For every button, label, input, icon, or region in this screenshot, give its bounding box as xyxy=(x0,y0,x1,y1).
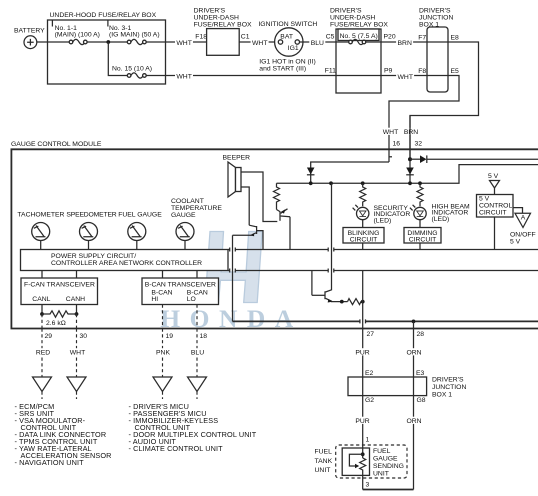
svg-text:WHT: WHT xyxy=(176,73,191,80)
TOPLEFT xyxy=(14,12,336,84)
svg-text:SENDING: SENDING xyxy=(373,463,404,470)
arrow stub 18 xyxy=(196,392,198,400)
svg-text:3: 3 xyxy=(366,482,370,489)
svg-text:F8: F8 xyxy=(418,68,426,75)
svg-text:FUEL: FUEL xyxy=(315,449,333,456)
wire pin1 into sender xyxy=(362,445,364,458)
node CANL xyxy=(40,312,44,316)
svg-text:19: 19 xyxy=(166,333,174,340)
resistor R2 xyxy=(274,183,280,209)
node busA security column xyxy=(361,181,365,185)
node pin27 column xyxy=(361,300,365,304)
svg-text:No. 15 (10 A): No. 15 (10 A) xyxy=(112,66,152,73)
node on lower rail xyxy=(412,320,416,324)
connector arrow 30 xyxy=(67,377,86,392)
svg-text:F7: F7 xyxy=(418,35,426,42)
wire B-CAN HI to pin 19 xyxy=(162,305,164,329)
svg-text:BLU: BLU xyxy=(191,350,204,357)
transistor Q2 xyxy=(233,225,264,249)
svg-text:BOX 1: BOX 1 xyxy=(432,392,452,399)
svg-text:(IG MAIN) (50 A): (IG MAIN) (50 A) xyxy=(109,31,160,38)
wire G8 ORN down xyxy=(413,396,415,490)
under-dash fuse/relay box 2 xyxy=(336,29,381,93)
wire lower WHT run to F11 xyxy=(146,75,336,77)
wire E8 BRN run to pin 32 xyxy=(410,42,479,158)
driver's junction box 1 xyxy=(427,27,448,92)
wire dimming circuit to bus1 xyxy=(419,243,421,250)
svg-text:PUR: PUR xyxy=(355,350,369,357)
node busA diode32 xyxy=(408,181,412,185)
speedometer gauge xyxy=(80,223,98,241)
wire Q2 emitter down to lower rail xyxy=(232,235,234,321)
note IG1 HOT xyxy=(259,59,316,73)
wire E2-G2 inside box xyxy=(362,377,364,396)
svg-text:LO: LO xyxy=(187,296,196,303)
svg-text:DRIVER'S: DRIVER'S xyxy=(194,8,226,15)
dimming circuit box xyxy=(404,228,441,244)
svg-text:18: 18 xyxy=(200,333,208,340)
node junction xyxy=(106,40,110,44)
svg-text:2.6 kΩ: 2.6 kΩ xyxy=(46,320,66,327)
wire Q3 base from bus2 xyxy=(311,271,313,296)
diode D3 on wire 32 xyxy=(406,168,414,175)
node busA high-beam column xyxy=(418,181,422,185)
wire label WHT xyxy=(175,39,193,46)
svg-text:30: 30 xyxy=(80,333,88,340)
gauge control module box border xyxy=(11,149,538,328)
b-can transceiver box xyxy=(142,278,219,305)
wire B-CAN LO to pin 18 xyxy=(196,305,198,329)
fuse No.3-1 symbol xyxy=(127,39,146,44)
svg-text:DRIVER'S: DRIVER'S xyxy=(432,377,464,384)
Honda H emblem watermark xyxy=(160,232,302,334)
wire control box to amplifier A xyxy=(513,208,523,214)
svg-text:WHT: WHT xyxy=(176,40,191,47)
wire 32 entry xyxy=(409,116,411,184)
svg-text:GAUGE CONTROL MODULE: GAUGE CONTROL MODULE xyxy=(11,141,102,148)
svg-text:29: 29 xyxy=(45,333,53,340)
svg-text:CONTROLLER AREA NETWORK CONTRO: CONTROLLER AREA NETWORK CONTROLLER xyxy=(51,260,202,267)
fuel gauge sending unit body xyxy=(342,448,369,475)
coolant temperature gauge xyxy=(176,223,194,241)
wire label RED xyxy=(35,348,52,355)
wire fuel gauge to power box xyxy=(136,241,138,250)
wire label ORN xyxy=(406,348,423,355)
svg-text:27: 27 xyxy=(367,331,375,338)
wire control box to bus1 xyxy=(494,217,496,250)
ignition switch SW1 xyxy=(258,21,317,56)
svg-text:5 V: 5 V xyxy=(510,238,521,245)
arrow stub 30 xyxy=(76,392,78,400)
wire label WHT xyxy=(175,72,193,79)
driver's junction box 1 lower xyxy=(348,377,427,396)
wire P20 to F7 xyxy=(381,41,427,43)
svg-text:G2: G2 xyxy=(365,397,374,404)
power rail busA xyxy=(277,165,538,184)
wire 30 WHT xyxy=(76,329,78,378)
svg-text:CIRCUIT: CIRCUIT xyxy=(479,210,507,217)
under-dash fuse/relay box (F18-C1) xyxy=(207,29,240,56)
svg-text:WHT: WHT xyxy=(70,350,85,357)
driver's junction box 1 label xyxy=(419,8,453,29)
svg-text:CIRCUIT: CIRCUIT xyxy=(350,237,378,244)
fuse No.15 symbol xyxy=(127,73,146,78)
svg-text:DRIVER'S: DRIVER'S xyxy=(419,8,451,15)
wire B-CAN LO power to b-can xyxy=(196,271,198,279)
svg-text:BLU: BLU xyxy=(311,40,324,47)
resistor R1 2.6 kOhm xyxy=(42,311,77,327)
node busA diode16 xyxy=(309,181,313,185)
svg-text:BRN: BRN xyxy=(404,129,418,136)
driver's under-dash fuse/relay box label xyxy=(194,8,252,29)
svg-text:C5: C5 xyxy=(326,34,335,41)
svg-text:- CLIMATE CONTROL UNIT: - CLIMATE CONTROL UNIT xyxy=(129,444,224,453)
transistor Q1 xyxy=(277,209,291,250)
svg-text:UNDER-DASH: UNDER-DASH xyxy=(194,15,239,22)
wire label ORN xyxy=(406,417,423,424)
wire tachometer to power box xyxy=(40,241,42,250)
svg-text:COOLANT: COOLANT xyxy=(171,198,204,205)
coolant temperature gauge label xyxy=(171,198,222,219)
svg-text:CIRCUIT: CIRCUIT xyxy=(409,237,437,244)
wire label PUR xyxy=(354,417,371,424)
svg-text:ON/OFF: ON/OFF xyxy=(510,231,536,238)
fuel tank unit label xyxy=(315,449,333,475)
wire battery to under-hood box xyxy=(37,41,48,43)
svg-text:F18: F18 xyxy=(195,34,207,41)
svg-text:BRN: BRN xyxy=(398,40,412,47)
on/off label xyxy=(510,231,536,245)
svg-text:ORN: ORN xyxy=(406,418,421,425)
connector arrow 29 xyxy=(33,377,52,392)
GAUGES xyxy=(17,198,538,329)
pin tick wire 16 xyxy=(389,156,392,158)
high beam indicator LED2 xyxy=(410,205,426,220)
svg-text:F-CAN TRANSCEIVER: F-CAN TRANSCEIVER xyxy=(24,282,95,289)
fuse No. 5 label box xyxy=(338,29,379,41)
wire CANL to pin 29 xyxy=(41,314,43,329)
svg-text:(MAIN) (100 A): (MAIN) (100 A) xyxy=(55,31,100,38)
TOPMID xyxy=(194,8,336,73)
wire label PNK xyxy=(155,348,172,355)
sender variable resistor xyxy=(360,458,366,490)
wire label PUR xyxy=(354,348,371,355)
bus1 rail xyxy=(228,249,538,251)
wire label BLU xyxy=(309,39,325,46)
wire F8-E5 inside box xyxy=(427,75,448,77)
wire label WHT xyxy=(396,73,414,80)
destination list left xyxy=(15,402,112,467)
svg-text:CONTROL: CONTROL xyxy=(479,203,512,210)
svg-text:JUNCTION: JUNCTION xyxy=(419,15,453,22)
svg-text:No. 5 (7.5 A): No. 5 (7.5 A) xyxy=(340,33,378,40)
lower rail wire to pin 28 xyxy=(233,320,538,322)
driver's junction box 1 lower label xyxy=(432,377,466,399)
wire F7-E8 inside box xyxy=(427,41,448,43)
fuel gauge sending unit label xyxy=(373,448,404,478)
beeper speaker symbol xyxy=(228,162,241,197)
svg-text:32: 32 xyxy=(415,141,423,148)
node sender tap xyxy=(361,452,365,456)
wire beeper top to transistor Q1 base xyxy=(241,172,277,222)
svg-text:B-CAN TRANSCEIVER: B-CAN TRANSCEIVER xyxy=(145,282,216,289)
svg-text:POWER SUPPLY CIRCUIT/: POWER SUPPLY CIRCUIT/ xyxy=(51,253,136,260)
wire E3-G8 inside box xyxy=(413,377,415,396)
svg-text:GAUGE: GAUGE xyxy=(171,212,196,219)
resistor R5 high beam xyxy=(417,183,423,206)
svg-text:WHT: WHT xyxy=(252,40,267,47)
BOTTOMLEFT xyxy=(15,329,257,468)
arrow stub 29 xyxy=(41,392,43,400)
5V control circuit box xyxy=(477,195,514,218)
svg-text:E2: E2 xyxy=(365,370,374,377)
MODULE xyxy=(11,116,538,329)
wire B-CAN HI power to b-can xyxy=(162,271,164,279)
wire P9 to F8 xyxy=(381,75,427,77)
wire xyxy=(87,41,127,43)
high beam indicator label xyxy=(432,203,470,223)
bus2 rail xyxy=(228,270,538,272)
svg-text:UNIT: UNIT xyxy=(373,471,389,478)
svg-text:5 V: 5 V xyxy=(479,196,490,203)
connector arrow 18 xyxy=(188,377,207,392)
svg-text:16: 16 xyxy=(393,141,401,148)
svg-text:BEEPER: BEEPER xyxy=(223,155,251,162)
svg-text:CANL: CANL xyxy=(32,296,50,303)
node emitter wire xyxy=(340,300,344,304)
svg-text:5 V: 5 V xyxy=(488,173,499,180)
svg-text:DRIVER'S: DRIVER'S xyxy=(330,8,362,15)
svg-text:IGNITION SWITCH: IGNITION SWITCH xyxy=(258,21,317,28)
f-can transceiver box xyxy=(21,278,98,305)
node busA Q3 column xyxy=(329,181,333,185)
svg-text:BAT: BAT xyxy=(280,33,293,40)
svg-text:TANK: TANK xyxy=(315,458,333,465)
svg-text:E8: E8 xyxy=(451,35,460,42)
svg-text:G8: G8 xyxy=(417,397,426,404)
wire pin 28 column xyxy=(413,321,415,377)
wire label BRN xyxy=(403,128,420,135)
svg-text:WHT: WHT xyxy=(383,129,398,136)
wire xyxy=(48,41,70,43)
security indicator LED1 xyxy=(353,205,369,220)
fuse No.1-1 symbol xyxy=(69,39,87,44)
svg-text:UNDER-HOOD FUSE/RELAY BOX: UNDER-HOOD FUSE/RELAY BOX xyxy=(50,12,157,19)
battery B1 xyxy=(14,28,45,49)
destination list right xyxy=(129,402,257,453)
wire coolant gauge to power box xyxy=(184,241,186,250)
wire E5 WHT run to pin 16 xyxy=(389,76,459,163)
fuel gauge xyxy=(128,223,146,241)
svg-text:TEMPERATURE: TEMPERATURE xyxy=(171,205,222,212)
wire CANL power to f-can xyxy=(41,271,43,279)
fuse No. 3-1 label xyxy=(109,25,160,39)
wire CANL down xyxy=(41,305,43,315)
svg-text:P20: P20 xyxy=(384,34,396,41)
svg-text:P9: P9 xyxy=(384,68,393,75)
resistor R3 xyxy=(348,299,363,305)
RIGHTMOD xyxy=(343,173,536,250)
svg-text:FUEL: FUEL xyxy=(373,448,391,455)
fuse No. 1-1 label xyxy=(55,25,100,39)
driver's under-dash fuse/relay box 2 label xyxy=(330,8,388,29)
tachometer gauge xyxy=(32,223,50,241)
wire label WHT xyxy=(382,128,400,135)
fuse No.5 symbol xyxy=(336,39,381,44)
svg-text:A: A xyxy=(521,215,526,222)
svg-text:C1: C1 xyxy=(241,34,250,41)
TOPRIGHT xyxy=(325,8,479,162)
diode D2 on wire right xyxy=(410,155,538,163)
svg-text:UNIT: UNIT xyxy=(315,467,331,474)
arrow stub 19 xyxy=(162,392,164,400)
wire beeper bottom to transistor Q2 xyxy=(241,187,249,225)
svg-text:FUEL GAUGE: FUEL GAUGE xyxy=(118,212,162,219)
node CANH xyxy=(75,312,79,316)
amplifier A triangle xyxy=(515,213,531,227)
svg-text:WHT: WHT xyxy=(398,74,413,81)
svg-text:IG1: IG1 xyxy=(288,45,299,52)
wire G2 PUR down xyxy=(362,396,364,445)
wire CANH to pin 30 xyxy=(76,314,78,329)
wire speedometer to power box xyxy=(88,241,90,250)
wire busA to transistor Q3 xyxy=(326,183,332,292)
wire 19 PNK xyxy=(162,329,164,378)
wire ignition to C5 xyxy=(300,41,337,43)
bus1 hop ticks xyxy=(230,248,334,252)
svg-text:PUR: PUR xyxy=(355,418,369,425)
wire pin 27 column xyxy=(362,271,364,378)
sender wiper arm xyxy=(349,454,362,468)
svg-text:CANH: CANH xyxy=(66,296,85,303)
blinking circuit box xyxy=(343,228,384,244)
wire CANH power to f-can xyxy=(76,271,78,279)
wire 5V arrow to control box xyxy=(494,188,496,195)
transistor Q3 xyxy=(312,291,348,302)
wire branch down xyxy=(108,42,127,76)
svg-text:PNK: PNK xyxy=(156,350,170,357)
svg-text:and START (III): and START (III) xyxy=(259,65,306,72)
bus2 hop ticks xyxy=(230,269,334,273)
fuel tank unit dashed box xyxy=(336,445,407,478)
svg-text:UNDER-DASH: UNDER-DASH xyxy=(330,15,375,22)
svg-text:(LED): (LED) xyxy=(374,218,392,225)
wire sender return to ORN xyxy=(363,489,414,491)
connector arrow 19 xyxy=(153,377,172,392)
svg-text:FUSE/RELAY BOX: FUSE/RELAY BOX xyxy=(330,22,388,29)
wire label BRN xyxy=(396,39,413,46)
5V supply arrow xyxy=(490,181,500,189)
wire 18 BLU xyxy=(196,329,198,378)
under-hood fuse/relay box xyxy=(48,12,166,84)
wire LED2 to dimming circuit xyxy=(419,220,421,228)
wire to WHT xyxy=(146,41,206,43)
svg-text:(LED): (LED) xyxy=(432,216,450,223)
wire 29 RED xyxy=(41,329,43,378)
wire blinking circuit to bus1 xyxy=(362,243,364,250)
svg-text:E3: E3 xyxy=(416,370,425,377)
svg-text:F11: F11 xyxy=(325,68,336,75)
wire C1 to ignition switch xyxy=(239,41,278,43)
svg-text:SPEEDOMETER: SPEEDOMETER xyxy=(66,212,116,219)
svg-text:HI: HI xyxy=(151,296,158,303)
svg-text:1: 1 xyxy=(366,437,370,444)
svg-text:ORN: ORN xyxy=(406,350,421,357)
svg-text:JUNCTION: JUNCTION xyxy=(432,384,466,391)
wire LED1 to blinking circuit xyxy=(362,220,364,228)
resistor R4 security xyxy=(360,183,366,206)
wire label WHT xyxy=(69,348,87,355)
wire label WHT xyxy=(251,39,269,46)
wire F11-P9 inside box xyxy=(336,75,381,77)
svg-text:28: 28 xyxy=(417,331,425,338)
svg-text:FUSE/RELAY BOX: FUSE/RELAY BOX xyxy=(194,22,252,29)
svg-text:GAUGE: GAUGE xyxy=(373,456,398,463)
svg-text:BATTERY: BATTERY xyxy=(14,28,45,35)
wire label BLU xyxy=(190,348,206,355)
lower rail hop ticks xyxy=(360,319,366,323)
BOTTOMRIGHT xyxy=(315,271,467,490)
svg-text:TACHOMETER: TACHOMETER xyxy=(17,212,64,219)
wire CANH down xyxy=(76,305,78,315)
power supply circuit box xyxy=(21,250,229,271)
svg-text:E5: E5 xyxy=(451,68,460,75)
security indicator label xyxy=(374,205,411,225)
svg-text:- NAVIGATION UNIT: - NAVIGATION UNIT xyxy=(15,458,85,467)
node wire 32 xyxy=(408,157,412,161)
wire 16 entry with diode D1 xyxy=(307,162,389,183)
svg-text:RED: RED xyxy=(36,350,50,357)
